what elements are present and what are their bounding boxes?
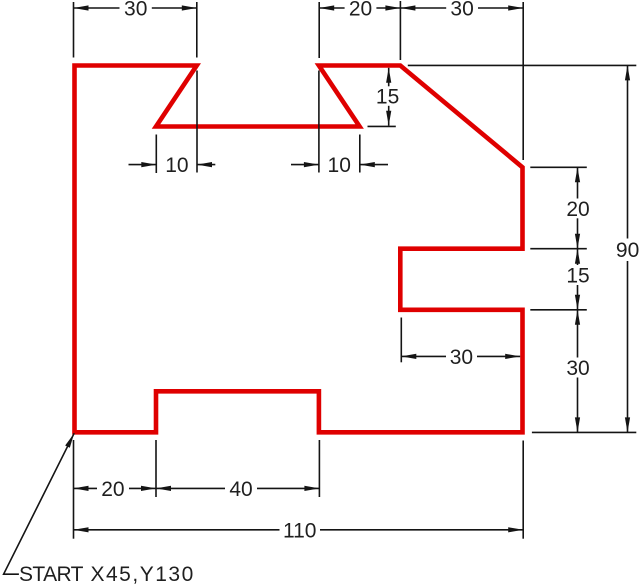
svg-text:110: 110	[283, 519, 316, 542]
extension line x73 bottom	[73, 440, 75, 539]
svg-text:10: 10	[165, 154, 188, 177]
extension line x400 top	[399, 1, 401, 60]
dimension 30 top right	[400, 0, 523, 21]
dimension 10 dovetail left	[129, 154, 216, 177]
leader to start point	[4, 432, 77, 574]
extension line y65 right	[408, 64, 637, 66]
svg-text:40: 40	[229, 478, 252, 501]
svg-text:10: 10	[328, 154, 351, 177]
extension line x523 bottom	[522, 441, 524, 539]
svg-text:15: 15	[566, 265, 589, 288]
extension line y167 right	[530, 166, 587, 168]
extension line left top	[73, 2, 75, 58]
svg-text:20: 20	[349, 0, 372, 21]
extension line x319 dovetail	[318, 71, 320, 173]
dimension 90 overall height	[616, 65, 639, 432]
extension line x360 dovetail	[359, 135, 361, 173]
dimension 30 right stack	[566, 310, 589, 433]
dimension 15 dovetail depth	[376, 68, 399, 126]
extension line x197 top	[196, 2, 198, 58]
dimension 20 bottom	[74, 478, 157, 501]
dimension 40 bottom	[156, 478, 319, 501]
extension line x319 top	[318, 2, 320, 58]
extension line x401 notch	[400, 318, 402, 363]
extension line x197 dovetail	[196, 71, 198, 173]
dimension 30 notch depth	[401, 346, 520, 369]
svg-text:90: 90	[616, 239, 639, 262]
svg-text:30: 30	[566, 357, 589, 380]
extension line x156 dovetail	[155, 135, 157, 174]
extension line x156 bottom	[155, 440, 157, 497]
svg-text:15: 15	[376, 86, 399, 109]
extension line y310 right	[530, 309, 587, 311]
extension line dovetail 15 bottom	[368, 125, 396, 127]
svg-text:X45,Y130: X45,Y130	[91, 563, 195, 586]
dimension 30 top left	[74, 0, 197, 21]
dimension 10 dovetail right	[291, 154, 388, 177]
dimension 20 right stack	[566, 167, 589, 248]
svg-text:30: 30	[124, 0, 147, 21]
svg-text:START: START	[19, 563, 84, 586]
dimension 15 right stack	[566, 249, 589, 310]
svg-text:30: 30	[450, 0, 473, 21]
dimension 20 top middle	[319, 0, 400, 21]
svg-text:20: 20	[101, 478, 124, 501]
extension line y249 right	[530, 248, 587, 250]
svg-text:30: 30	[450, 346, 473, 369]
extension line x523 top right	[522, 2, 524, 160]
svg-text:20: 20	[566, 198, 589, 221]
red profile outline	[75, 66, 523, 433]
extension line x319 bottom	[318, 440, 320, 497]
label START X45,Y130	[19, 563, 195, 586]
dimension 110 overall width	[74, 519, 524, 542]
extension line y432 right	[532, 431, 636, 433]
